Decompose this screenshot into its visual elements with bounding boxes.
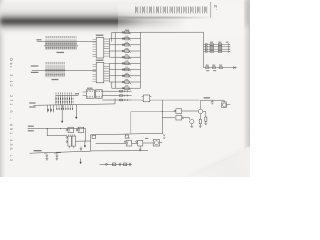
loudspeaker LS1 bbox=[222, 100, 231, 107]
resistor network RN1 body row (lower) bbox=[46, 47, 77, 49]
wire fan U1 outputs to driver rail bbox=[109, 32, 115, 57]
resistor network RN2 body row (upper) bbox=[46, 69, 65, 71]
input labels left of baseline bbox=[29, 102, 35, 103]
pull-up resistor row R14 bbox=[203, 51, 230, 53]
gate G6 bbox=[176, 115, 184, 120]
crystal K1 bbox=[142, 95, 152, 102]
resistor R23 bbox=[112, 163, 115, 166]
driver cell T3 (transistor stage) bbox=[115, 42, 140, 47]
driver ladder left rail bbox=[114, 32, 116, 88]
capacitor C5 bbox=[54, 152, 58, 160]
driver cell T8 (transistor stage) bbox=[115, 73, 140, 78]
supply label upper left bbox=[28, 126, 34, 127]
wire: rail M drop into module bbox=[84, 128, 86, 141]
sheet arrow A (to /2) bbox=[61, 105, 63, 123]
resistor network RN2 body row (lower) bbox=[46, 74, 65, 76]
capacitor C10 bbox=[119, 163, 120, 166]
wire: gate rail M bbox=[28, 127, 86, 129]
wire: ground rail bbox=[30, 151, 91, 153]
transistor Q3 bbox=[153, 140, 159, 146]
wire: RN1 lower rail bbox=[44, 45, 78, 47]
wire: rail to K1 bbox=[132, 99, 142, 101]
junction node at U5 output bbox=[84, 141, 85, 142]
value label under RN1 bbox=[57, 52, 65, 53]
oscillator cell X2 bbox=[124, 140, 131, 146]
U1 left pins bbox=[93, 39, 97, 57]
value label under RN2 bbox=[52, 79, 59, 80]
junction node at C7 ground on rail bbox=[140, 150, 141, 151]
resistor R21 bbox=[203, 111, 207, 124]
transistor Q4 bbox=[198, 100, 203, 114]
label above driver T1 bbox=[125, 30, 129, 31]
driver cell T7 (transistor stage) bbox=[115, 67, 140, 72]
driver cell T6 (transistor stage) bbox=[115, 61, 140, 66]
U2 left pins bbox=[93, 64, 97, 82]
wire: main baseline bus bbox=[33, 98, 115, 105]
labels above pull-up rows bbox=[210, 42, 228, 43]
pull-up resistor row R12 bbox=[203, 46, 230, 48]
wire: K1 to output stage bbox=[151, 99, 199, 101]
wire: riser from module to G5 input bbox=[131, 112, 174, 134]
pull-up resistor row R11 bbox=[203, 43, 230, 45]
label above U1 bbox=[96, 35, 104, 36]
input label (lower) at RN2 bbox=[31, 72, 39, 73]
module shield box M1 bbox=[91, 133, 163, 151]
wire X2 to C7 bbox=[132, 142, 138, 144]
gate G2 bbox=[76, 127, 84, 132]
driver cell T2 (transistor stage) bbox=[115, 36, 140, 41]
wire fan U2 outputs to driver rail bbox=[109, 63, 115, 88]
pull-up resistor row R13 bbox=[203, 48, 230, 50]
IC U3 (oscillator, left) bbox=[86, 90, 94, 98]
ground at U5 bbox=[80, 146, 83, 150]
junction node on rail M bbox=[47, 128, 48, 129]
sheet arrow D bbox=[80, 158, 82, 163]
bus: U4 to divider chain (3 rails) bbox=[102, 91, 131, 100]
ground at C7 bbox=[139, 146, 142, 150]
ground at Q5 bbox=[190, 124, 193, 127]
inline resistors on rails bbox=[119, 90, 122, 101]
resistor network RN2 element strokes bbox=[46, 65, 65, 77]
capacitor C4 bbox=[44, 153, 48, 161]
resistor R20 (emitter) bbox=[199, 114, 202, 128]
wire: G6 output bbox=[184, 118, 190, 120]
+5V rail of output stage bbox=[201, 99, 225, 101]
driver cell T5 (transistor stage) bbox=[115, 54, 140, 59]
resistor R24 bbox=[123, 163, 126, 166]
IC U5 dual flip-flop bbox=[66, 135, 76, 146]
pull-down stubs under S1 bbox=[57, 105, 74, 110]
resistor network RN2 pin-number row bbox=[46, 62, 65, 64]
capacitor C11 bbox=[129, 163, 130, 166]
label above U2 bbox=[96, 60, 104, 61]
DIP switch S1 body row (lower) bbox=[56, 101, 74, 103]
svg-text:. 3: . 3 bbox=[213, 5, 218, 11]
wire: G5 output to driver Q4 bbox=[182, 110, 199, 112]
wire: RN1 common bus to IC U1 bbox=[37, 41, 96, 43]
label above X2 bbox=[127, 138, 130, 139]
svg-text:271.5 - 691.435 L3: 271.5 - 691.435 L3 bbox=[9, 95, 13, 163]
filter cell C7 bbox=[136, 140, 143, 146]
driver cell T10 (transistor stage) bbox=[115, 85, 140, 90]
sheet arrow C bbox=[84, 142, 86, 148]
labels around divider row bbox=[206, 65, 223, 72]
DIP switch S1 pin-number row bbox=[56, 93, 74, 95]
connector X1 pin-name labels (tiny vertical text row) bbox=[135, 6, 207, 14]
op IC U2 (latch, lower) bbox=[96, 62, 104, 82]
wire: RN2 common bus to IC U2 bbox=[32, 69, 96, 71]
supply label lower left bbox=[28, 130, 34, 131]
label above U3 bbox=[87, 88, 93, 89]
sheet arrow B (to /2) bbox=[76, 105, 78, 119]
value label right of C7 bbox=[145, 138, 148, 139]
label right of S1 top rail bbox=[75, 93, 79, 94]
chevron marks at module corner bbox=[163, 135, 165, 139]
test point TP1 bbox=[105, 163, 107, 165]
pin ticks on rails bbox=[125, 90, 127, 101]
DIP switch S1 top rail bbox=[56, 94, 79, 96]
divider resistor row R15 bbox=[203, 66, 236, 69]
driver cell T9 (transistor stage) bbox=[115, 79, 140, 84]
module corner block (right) bbox=[125, 135, 128, 138]
wire: U5 output to module bbox=[76, 140, 91, 142]
wire cell X2 input bbox=[96, 142, 127, 144]
junction node on rail M (2) bbox=[60, 128, 61, 129]
U2 right pins bbox=[104, 64, 109, 82]
resistor network RN1 pin-number row bbox=[46, 36, 76, 38]
wire: border to G6 input bbox=[162, 117, 175, 119]
wire: RC chain bbox=[100, 163, 132, 165]
label at RN1 left stub bbox=[36, 39, 41, 40]
op IC U1 (latch, upper) bbox=[96, 38, 104, 58]
module corner block (left) bbox=[92, 135, 96, 138]
U5 package legs bbox=[70, 146, 74, 148]
sheet border vertical from output stage bbox=[161, 100, 163, 133]
driver ladder right rail bbox=[139, 32, 141, 88]
transistor Q5 bbox=[190, 120, 194, 124]
input label (upper) at RN2 bbox=[31, 65, 39, 66]
junction G5 input rail bbox=[162, 111, 163, 112]
U3 left pins bbox=[83, 92, 87, 95]
capacitor C9 bbox=[211, 100, 214, 104]
wire: ladder output bus to pull-up grid bbox=[140, 32, 203, 67]
wire: drop from rail M to U5 bbox=[47, 129, 67, 136]
+5V label bbox=[204, 97, 210, 98]
driver cell T4 (transistor stage) bbox=[115, 48, 140, 53]
resistor network RN1 body row (upper) bbox=[46, 43, 77, 45]
wire Q3 to module edge bbox=[160, 142, 163, 144]
ground rail label bbox=[34, 150, 42, 151]
label lower-left of U5 bbox=[56, 152, 61, 153]
U1 right pins bbox=[104, 39, 109, 58]
DIP switch S1 element strokes bbox=[56, 95, 74, 105]
sheet border line (right) bbox=[210, 2, 212, 18]
wire C7 to Q3 bbox=[143, 142, 153, 144]
IC U4 (divider, right) bbox=[95, 90, 102, 98]
driver cell T1 (transistor stage) bbox=[115, 30, 140, 35]
pull resistor drops under S1 bbox=[47, 105, 54, 112]
gate G5 bbox=[174, 109, 182, 114]
pull-down stub squares under S1 bbox=[56, 108, 73, 110]
svg-text:Obr. 3.12: Obr. 3.12 bbox=[9, 58, 14, 88]
resistor network RN1 element strokes bbox=[46, 39, 76, 50]
DIP switch S1 body row (upper) bbox=[56, 98, 74, 100]
gate G1 bbox=[66, 127, 74, 132]
junction at module corner bbox=[162, 133, 163, 134]
